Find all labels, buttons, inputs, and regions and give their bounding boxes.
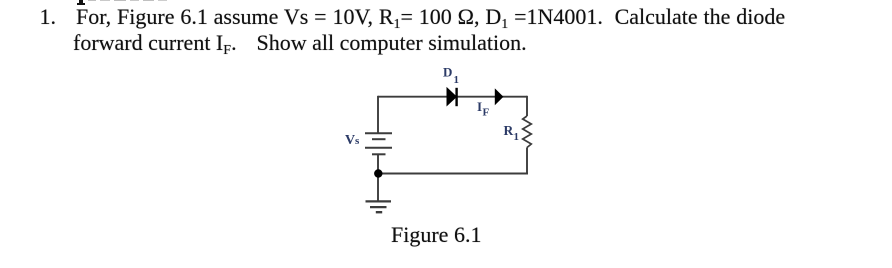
battery source Vs — [365, 133, 392, 154]
wire: left side (top corner down to battery top plate) — [377, 96, 379, 133]
current direction arrow — [495, 90, 502, 105]
wire: top side (node from Vs+ to diode anode, diode cathode to top-right corner) — [378, 96, 527, 98]
svg-text:F: F — [483, 107, 490, 119]
label IF — [477, 99, 490, 119]
ground — [366, 201, 392, 212]
problem text line 2 — [73, 30, 237, 55]
svg-text:V: V — [345, 133, 355, 148]
label Vs — [345, 133, 360, 148]
diode D1 — [447, 88, 457, 106]
problem text line 1 — [76, 4, 785, 29]
problem text line 1: item number — [40, 4, 57, 29]
junction node dot — [374, 169, 382, 177]
wire: right side lower (resistor to bottom-right corner) — [526, 148, 528, 174]
wire: bottom side (bottom-right corner to junction) — [378, 173, 528, 175]
cut-off text remnant at top — [79, 0, 84, 3]
svg-text:s: s — [355, 135, 360, 147]
svg-text:1: 1 — [454, 74, 460, 86]
label D1 — [443, 65, 459, 86]
wire: right side upper (top-right corner to resistor) — [526, 96, 528, 116]
svg-text:1: 1 — [514, 131, 520, 143]
svg-text:D: D — [443, 65, 452, 80]
svg-text:I: I — [477, 99, 482, 114]
svg-text:R: R — [504, 123, 514, 138]
label R1 — [504, 123, 520, 143]
resistor R1 — [523, 116, 532, 148]
problem text line 2 (second sentence) — [257, 30, 527, 55]
wire: battery minus down through junction to ground — [377, 154, 379, 201]
caption Figure 6.1 — [391, 222, 481, 247]
